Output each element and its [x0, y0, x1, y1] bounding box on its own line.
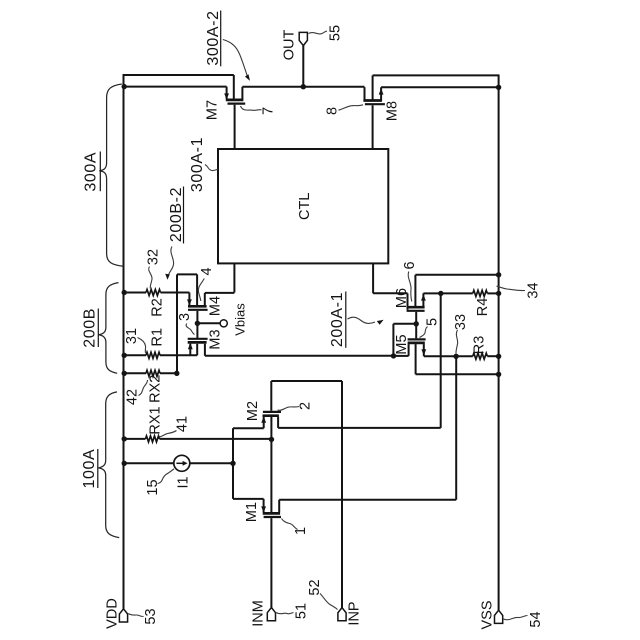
svg-text:42: 42 [125, 389, 141, 405]
node: M3 drain / M5 gate junction [391, 353, 396, 358]
svg-text:VDD: VDD [105, 598, 121, 629]
svg-text:6: 6 [402, 261, 418, 269]
svg-text:R3: R3 [472, 336, 488, 355]
svg-text:200B-2: 200B-2 [168, 187, 185, 242]
svg-text:4: 4 [199, 267, 215, 275]
wire: M2 gate run [271, 380, 342, 382]
node: VDD rail / M7 source junction [122, 84, 127, 89]
wire: CTL bottom-right pin [372, 263, 374, 293]
svg-text:RX1: RX1 [148, 406, 164, 434]
resistor RX2 [122, 371, 127, 376]
transistor M1 [263, 499, 265, 512]
svg-text:R4: R4 [475, 298, 491, 317]
svg-text:55: 55 [328, 25, 344, 41]
svg-text:M1: M1 [244, 502, 260, 522]
current source I1 [122, 461, 127, 466]
terminal VSS [495, 610, 503, 623]
wire: M1 drain run [279, 499, 456, 501]
terminal INM [267, 608, 275, 621]
terminal VDD [119, 609, 127, 622]
transistor M8 [380, 87, 382, 101]
node: RX1 / M1-M2 body junction [269, 437, 274, 442]
svg-text:32: 32 [146, 249, 162, 265]
terminal OUT [299, 32, 307, 45]
brace 300A [99, 84, 123, 266]
node: OUT junction [301, 84, 306, 89]
svg-text:33: 33 [453, 314, 469, 330]
svg-text:54: 54 [528, 611, 544, 627]
op-amp control block CTL U1 [218, 149, 388, 263]
wire: M8 source wire to VSS rail [381, 86, 499, 88]
node: VSS rail / M8 source junction [496, 85, 501, 90]
terminal INP [338, 608, 346, 621]
brace 200B [99, 283, 119, 374]
svg-text:41: 41 [175, 416, 191, 432]
svg-text:R1: R1 [150, 328, 166, 347]
svg-text:2: 2 [298, 402, 314, 410]
svg-text:M3: M3 [208, 329, 224, 349]
wire: top rail right (M8 body to VSS) [373, 74, 500, 76]
svg-text:300A-2: 300A-2 [205, 10, 222, 65]
resistor R1 [122, 353, 127, 358]
wire: VSS rail [498, 75, 500, 611]
transistor M7 [226, 87, 228, 99]
wire: tail column to M1/M2 sources [232, 428, 234, 499]
node: RX2 / gate line corner [174, 371, 179, 376]
wire: M6 source to R4 [423, 292, 472, 294]
svg-text:51: 51 [294, 603, 310, 619]
transistor M5 [408, 344, 410, 356]
node: M5/M6 gate junction [414, 321, 419, 326]
svg-text:15: 15 [145, 479, 161, 495]
svg-text:I1: I1 [176, 476, 192, 488]
wire: M3 drain to M5 [205, 355, 394, 357]
svg-text:52: 52 [307, 579, 323, 595]
wire: M5 source to R3 [424, 355, 473, 357]
wire: top rail left (VDD to M7 body) [123, 74, 234, 76]
svg-text:200B: 200B [81, 308, 98, 348]
svg-text:M8: M8 [385, 101, 401, 121]
svg-text:8: 8 [325, 107, 341, 115]
transistor M3 [189, 344, 191, 356]
svg-text:INP: INP [347, 601, 363, 625]
svg-text:INM: INM [251, 600, 267, 627]
svg-text:7: 7 [261, 107, 277, 115]
wire: CTL pin to M6 gate [373, 292, 407, 294]
resistor R3 [473, 353, 488, 359]
wire: output node (M7 drain to M8 drain) [242, 86, 364, 88]
wire: Vbias stub [197, 322, 220, 324]
node: M3/M4 gate (Vbias) [195, 321, 200, 326]
svg-text:M6: M6 [394, 288, 410, 308]
resistor RX1 [122, 436, 127, 441]
svg-text:M2: M2 [245, 401, 261, 421]
svg-text:R2: R2 [150, 298, 166, 317]
wire: M5 gate loop [393, 323, 416, 325]
terminal Vbias [220, 320, 227, 327]
svg-text:53: 53 [143, 608, 159, 624]
svg-text:300A-1: 300A-1 [189, 137, 206, 192]
svg-text:31: 31 [124, 328, 140, 344]
wire: M4 drain to CTL pin [205, 292, 235, 294]
svg-text:M7: M7 [205, 100, 221, 120]
svg-text:200A-1: 200A-1 [329, 292, 346, 347]
transistor M4 [188, 293, 190, 306]
brace 100A [99, 392, 120, 538]
transistor M6 [422, 293, 424, 306]
transistor M2 [263, 417, 265, 428]
wire: VDD rail [123, 74, 125, 609]
svg-text:100A: 100A [81, 449, 98, 489]
svg-text:CTL: CTL [297, 193, 313, 220]
wire: M5 body to VSS rail [416, 373, 499, 375]
wire: M2 drain run to 200A node [278, 427, 441, 429]
svg-text:34: 34 [526, 282, 542, 298]
svg-text:VSS: VSS [480, 600, 496, 629]
wire: M6 body wire (6) [415, 274, 498, 276]
svg-text:RX2: RX2 [148, 375, 164, 403]
wire: INP riser [341, 381, 343, 608]
wire: OUT stub up [302, 45, 304, 86]
resistor R4 [473, 290, 488, 296]
svg-text:M4: M4 [208, 296, 224, 316]
svg-text:M5: M5 [394, 334, 410, 354]
wire: M3/M4 body bias line [176, 274, 178, 373]
svg-text:OUT: OUT [282, 30, 298, 61]
wire: CTL bottom-left pin [233, 263, 235, 292]
node: M6 source / R4 / M2 drain junction [438, 291, 443, 296]
wire: M7 source wire [124, 86, 227, 88]
svg-text:Vbias: Vbias [233, 303, 248, 336]
svg-text:5: 5 [425, 318, 441, 326]
svg-text:3: 3 [177, 313, 193, 321]
resistor R2 [122, 290, 127, 295]
svg-text:300A: 300A [82, 152, 99, 192]
node: tail current junction [230, 461, 235, 466]
node: M5 source / R3 / M1 drain junction [453, 354, 458, 359]
